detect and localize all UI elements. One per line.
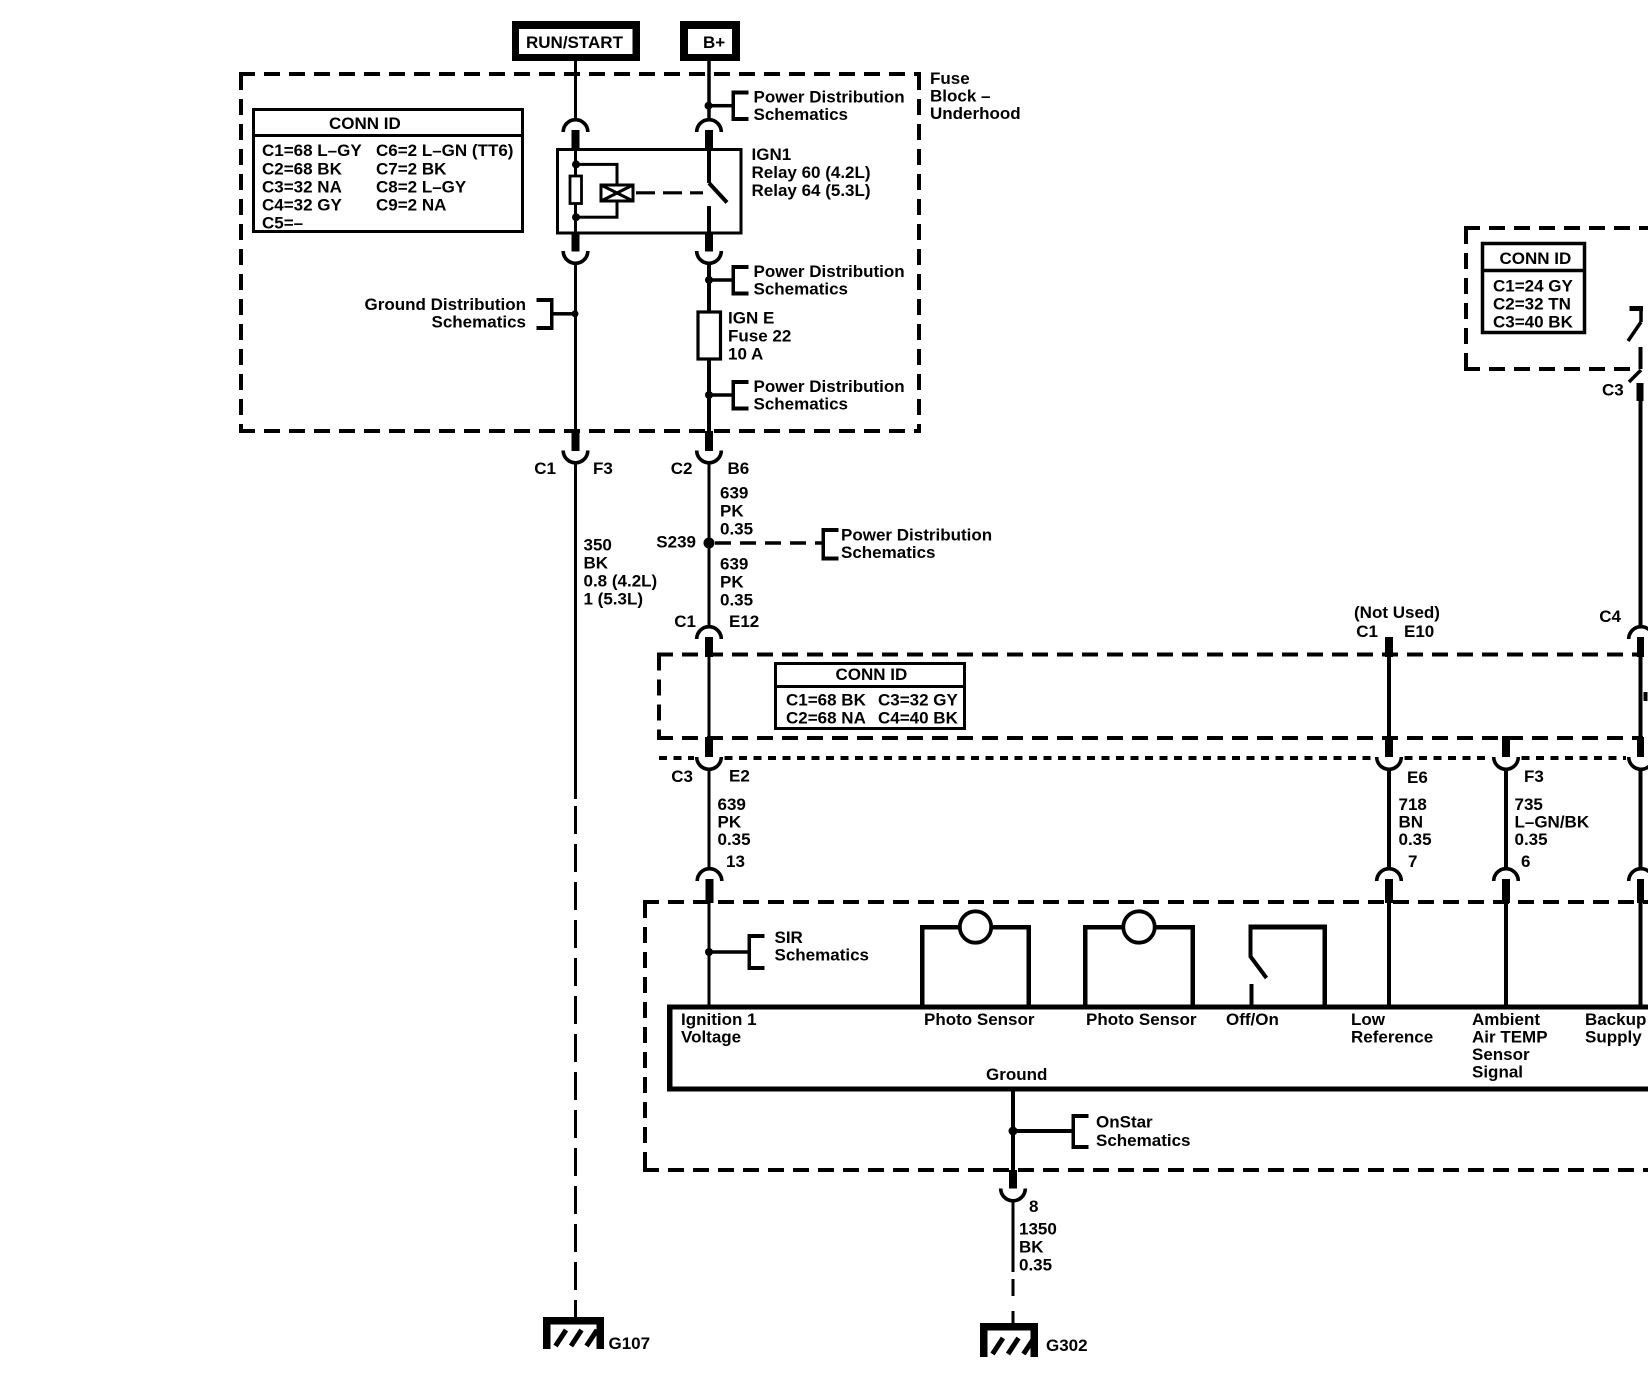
svg-text:0.35: 0.35 [718, 830, 751, 849]
svg-text:Power Distribution: Power Distribution [754, 262, 905, 281]
dashed tap to Power Distribution [715, 541, 822, 545]
svg-text:Relay 64 (5.3L): Relay 64 (5.3L) [752, 181, 871, 200]
svg-text:C4: C4 [1599, 607, 1621, 626]
svg-text:Schematics: Schematics [775, 945, 870, 964]
svg-text:C1: C1 [534, 459, 556, 478]
svg-text:Supply: Supply [1585, 1027, 1642, 1046]
wire RUN/START feed [574, 61, 577, 121]
svg-text:C1=68 L–GY: C1=68 L–GY [262, 141, 362, 160]
svg-text:SIR: SIR [775, 928, 803, 947]
svg-text:Fuse 22: Fuse 22 [728, 326, 791, 345]
svg-text:0.35: 0.35 [720, 519, 753, 538]
bracket Power Distribution S239 [822, 528, 826, 561]
svg-text:E10: E10 [1404, 622, 1434, 641]
svg-text:0.8 (4.2L): 0.8 (4.2L) [584, 571, 658, 590]
svg-text:13: 13 [726, 852, 745, 871]
svg-text:RUN/START: RUN/START [526, 33, 624, 52]
svg-text:Sensor: Sensor [1472, 1045, 1530, 1064]
svg-text:C1=24 GY: C1=24 GY [1493, 276, 1574, 295]
connector E6 [1385, 737, 1393, 757]
svg-text:735: 735 [1515, 795, 1543, 814]
svg-text:Reference: Reference [1351, 1027, 1433, 1046]
connector ID table (right) [1483, 244, 1585, 333]
junction dot OnStar tap [1009, 1127, 1018, 1136]
wire backup through band [1639, 657, 1643, 738]
svg-text:B+: B+ [703, 33, 725, 52]
wire backup to pin [1639, 769, 1643, 868]
connector arc relay pin 30 side [697, 120, 722, 132]
connector arc relay out right [705, 233, 713, 252]
wire 639 PK upper [708, 463, 711, 544]
svg-text:0.35: 0.35 [720, 590, 753, 609]
svg-text:C2=68 BK: C2=68 BK [262, 159, 343, 178]
svg-text:Signal: Signal [1472, 1062, 1523, 1081]
svg-text:639: 639 [718, 795, 746, 814]
module inner solid box [667, 1005, 1648, 1010]
svg-text:C3=40 BK: C3=40 BK [1493, 312, 1574, 331]
tap wire OnStar [1013, 1129, 1072, 1133]
svg-text:Schematics: Schematics [754, 105, 849, 124]
svg-text:7: 7 [1408, 852, 1417, 871]
bracket Power Distribution 2 [732, 265, 736, 296]
svg-text:Low: Low [1351, 1010, 1386, 1029]
svg-text:C6=2 L–GN (TT6): C6=2 L–GN (TT6) [376, 141, 513, 160]
wire 350 BK hidden run [574, 806, 577, 1317]
pin backup supply [1629, 869, 1648, 881]
svg-text:PK: PK [720, 572, 744, 591]
connector C1 F3 [572, 431, 580, 451]
svg-text:Backup: Backup [1585, 1010, 1646, 1029]
photo sensor 2 symbol [1083, 925, 1088, 1005]
svg-text:6: 6 [1521, 852, 1530, 871]
svg-text:Fuse: Fuse [930, 69, 970, 88]
junction dot SIR tap [705, 948, 713, 956]
svg-text:F3: F3 [593, 459, 613, 478]
switch Off/On symbol [1249, 925, 1328, 930]
wire 639 through band [708, 657, 711, 738]
svg-text:C2: C2 [671, 459, 693, 478]
tap wire to Power Distribution [709, 104, 732, 108]
svg-text:Underhood: Underhood [930, 104, 1021, 123]
tap wire SIR [709, 950, 748, 954]
bracket SIR [748, 934, 752, 970]
wire 639 PK lower [708, 543, 711, 627]
wire 1350 BK [1012, 1201, 1015, 1273]
wire 718 BN [1387, 769, 1391, 868]
connector ID table (fuse block) [254, 110, 523, 232]
svg-text:BK: BK [584, 553, 609, 572]
power keyword box RUN/START [512, 21, 640, 61]
svg-text:0.35: 0.35 [1019, 1255, 1052, 1274]
wire backup supply inside module [1639, 903, 1643, 1005]
svg-text:Relay 60 (4.2L): Relay 60 (4.2L) [752, 163, 871, 182]
svg-text:Voltage: Voltage [681, 1027, 741, 1046]
svg-text:Block –: Block – [930, 86, 990, 105]
connector F3 [1502, 736, 1510, 757]
svg-text:Ground Distribution: Ground Distribution [365, 295, 526, 314]
svg-text:C1=68 BK: C1=68 BK [786, 690, 867, 709]
svg-text:C8=2 L–GY: C8=2 L–GY [376, 177, 467, 196]
resistor relay coil suppression [570, 176, 582, 204]
photo sensor 1 symbol [920, 925, 925, 1005]
svg-text:Power Distribution: Power Distribution [754, 87, 905, 106]
wire backup feed entry [1630, 306, 1644, 311]
connector arc relay out left [572, 233, 580, 252]
svg-text:C1: C1 [1356, 622, 1378, 641]
svg-text:B6: B6 [728, 459, 750, 478]
svg-text:C5=–: C5=– [262, 214, 303, 233]
wire relay to C1 F3 [574, 262, 577, 431]
module dotted boundary [659, 756, 694, 760]
svg-text:C3: C3 [671, 767, 693, 786]
svg-text:Schematics: Schematics [754, 279, 849, 298]
wire relay to fuse [707, 262, 711, 431]
svg-text:IGN E: IGN E [728, 308, 774, 327]
ambient light sensor module dashed outline [643, 900, 1648, 904]
connector ID table (band) [776, 664, 965, 729]
junction dot relay coil top [572, 160, 580, 168]
relay switch contact [707, 149, 711, 184]
svg-text:E2: E2 [729, 766, 750, 785]
bracket OnStar [1072, 1114, 1076, 1149]
svg-text:G302: G302 [1046, 1336, 1088, 1355]
connector backup at module [1637, 737, 1644, 757]
splice S239 [704, 538, 715, 549]
svg-text:Schematics: Schematics [841, 543, 936, 562]
connector pin 8 [1009, 1170, 1017, 1189]
svg-text:C3=32 GY: C3=32 GY [878, 690, 959, 709]
svg-text:Schematics: Schematics [1096, 1131, 1191, 1150]
svg-text:C3: C3 [1602, 380, 1624, 399]
svg-text:Photo Sensor: Photo Sensor [924, 1010, 1035, 1029]
svg-text:E12: E12 [729, 612, 759, 631]
wire 639 PK to pin 13 [708, 769, 711, 868]
svg-text:C4=40 BK: C4=40 BK [878, 709, 959, 728]
svg-text:8: 8 [1029, 1197, 1038, 1216]
wire backup to C4 [1639, 401, 1643, 626]
connector C3 E2 [705, 737, 713, 757]
svg-text:C7=2 BK: C7=2 BK [376, 159, 447, 178]
svg-text:Power Distribution: Power Distribution [754, 377, 905, 396]
tap wire 2 [709, 278, 732, 282]
svg-text:0.35: 0.35 [1515, 830, 1548, 849]
svg-text:0.35: 0.35 [1399, 830, 1432, 849]
wire backup feed inside right box [1639, 347, 1643, 369]
junction dot B+ tap 3 [705, 391, 713, 399]
wire 735 L-GN/BK [1504, 769, 1508, 868]
wire 1350 BK hidden run [1012, 1279, 1015, 1296]
svg-text:Ambient: Ambient [1472, 1010, 1540, 1029]
svg-text:CONN ID: CONN ID [329, 114, 401, 133]
wire 350 BK [574, 463, 577, 800]
svg-text:350: 350 [584, 535, 612, 554]
wire ambient air temp inside module [1504, 903, 1508, 1005]
power keyword box B+ [680, 21, 740, 61]
svg-text:C2=68 NA: C2=68 NA [786, 709, 866, 728]
break symbol lower / connector C3 right [1629, 370, 1641, 382]
break symbol upper [1628, 322, 1641, 341]
svg-text:CONN ID: CONN ID [1500, 249, 1572, 268]
svg-text:639: 639 [720, 483, 748, 502]
svg-text:CONN ID: CONN ID [836, 665, 908, 684]
wire low reference inside module [1387, 903, 1391, 1005]
svg-text:Ignition 1: Ignition 1 [681, 1010, 757, 1029]
svg-text:10 A: 10 A [728, 344, 763, 363]
svg-text:Photo Sensor: Photo Sensor [1086, 1010, 1197, 1029]
tap wire Ground Distribution [554, 312, 577, 316]
svg-text:BK: BK [1019, 1237, 1044, 1256]
ground G107 [547, 1321, 601, 1349]
svg-text:F3: F3 [1524, 767, 1544, 786]
bracket Power Distribution 1 [732, 91, 736, 122]
svg-text:718: 718 [1399, 795, 1427, 814]
relay coil branch wire [574, 149, 577, 234]
wire B+ feed [707, 61, 711, 121]
svg-text:1 (5.3L): 1 (5.3L) [584, 589, 644, 608]
svg-text:OnStar: OnStar [1096, 1112, 1153, 1131]
svg-text:1350: 1350 [1019, 1219, 1057, 1238]
ground G302 [984, 1327, 1035, 1357]
svg-text:BN: BN [1399, 812, 1424, 831]
svg-text:639: 639 [720, 554, 748, 573]
svg-text:Power Distribution: Power Distribution [841, 525, 992, 544]
wire ground from module [1011, 1092, 1015, 1171]
wire ignition voltage inside module [708, 903, 711, 1005]
fuse IGN E Fuse 22 10A [698, 312, 721, 359]
svg-text:C2=32 TN: C2=32 TN [1493, 294, 1571, 313]
svg-text:S239: S239 [656, 532, 696, 551]
svg-text:Air TEMP: Air TEMP [1472, 1027, 1548, 1046]
svg-text:C9=2 NA: C9=2 NA [376, 196, 446, 215]
relay coil winding box [601, 185, 633, 201]
svg-text:L–GN/BK: L–GN/BK [1515, 812, 1590, 831]
connector C2 B6 [705, 431, 713, 451]
svg-text:Off/On: Off/On [1226, 1010, 1279, 1029]
bracket Ground Distribution [550, 298, 554, 330]
svg-text:G107: G107 [609, 1334, 651, 1353]
svg-text:C1: C1 [674, 612, 696, 631]
fuse block underhood dashed outline [239, 72, 921, 76]
svg-text:E6: E6 [1407, 768, 1428, 787]
wire E10 through band [1387, 657, 1391, 738]
svg-text:Schematics: Schematics [432, 312, 527, 331]
svg-text:Ground: Ground [986, 1065, 1047, 1084]
bracket Power Distribution 3 [732, 380, 736, 411]
relay actuation dashed link [636, 191, 703, 194]
svg-text:C3=32 NA: C3=32 NA [262, 177, 342, 196]
svg-text:IGN1: IGN1 [752, 145, 792, 164]
svg-text:Schematics: Schematics [754, 394, 849, 413]
svg-text:PK: PK [720, 501, 744, 520]
connector arc relay pin 86 side [563, 120, 588, 132]
svg-text:C4=32 GY: C4=32 GY [262, 196, 343, 215]
relay IGN1 outline [558, 150, 742, 234]
junction dot B+ tap 2 [705, 276, 713, 284]
svg-text:(Not Used): (Not Used) [1354, 603, 1440, 622]
instrument panel connector band outline [657, 653, 1643, 657]
junction dot B+ tap 1 [705, 102, 713, 110]
tap wire 3 [709, 393, 732, 397]
svg-text:PK: PK [718, 812, 742, 831]
junction dot relay coil bottom [572, 213, 580, 221]
right connector dashed outline [1464, 226, 1648, 230]
